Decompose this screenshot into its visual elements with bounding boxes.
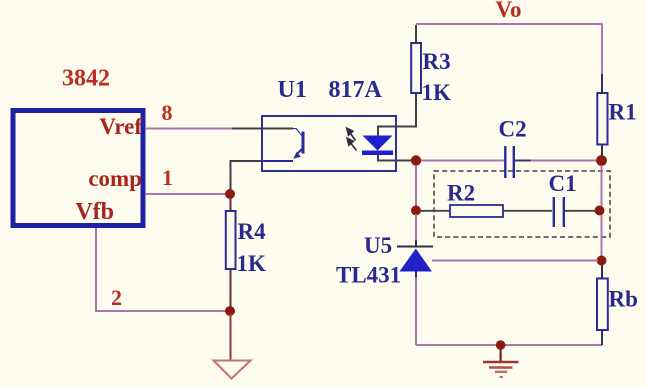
svg-text:817A: 817A xyxy=(329,77,383,103)
svg-text:Vo: Vo xyxy=(496,0,522,22)
svg-text:C2: C2 xyxy=(499,117,527,142)
optocoupler U1 box xyxy=(262,116,396,171)
wire C2 right to R1 junction (purple part) xyxy=(531,160,598,162)
node R4 bottom junction xyxy=(225,306,235,316)
light emission arrows xyxy=(347,128,357,150)
wire U5 cathode lead (dark) xyxy=(415,240,417,247)
wire Vfb pin 2 xyxy=(96,228,227,311)
IC 3842 box xyxy=(13,111,143,226)
resistor R2 xyxy=(421,210,450,212)
dashed compensation box xyxy=(434,171,610,237)
resistor R3 xyxy=(415,25,417,43)
TL431 U5 cathode bar xyxy=(397,246,433,248)
node ground junction xyxy=(496,340,506,350)
wire U5 anode down xyxy=(415,272,417,279)
capacitor C2 xyxy=(504,146,506,178)
wire comp pin 1 xyxy=(146,193,228,195)
wire C2 to R1 bottom junction xyxy=(515,160,532,162)
bottom rail xyxy=(416,344,602,346)
node Rb top junction xyxy=(597,256,607,266)
svg-text:1: 1 xyxy=(162,165,173,190)
wire R2 junction down to U5 cathode xyxy=(415,214,417,241)
wire Vref pin 8 (purple part) xyxy=(146,128,233,130)
node R1 bottom junction xyxy=(596,155,607,166)
resistor R1 xyxy=(601,74,603,93)
svg-text:R3: R3 xyxy=(423,49,451,74)
capacitor C1 xyxy=(553,197,555,227)
svg-text:1K: 1K xyxy=(422,80,452,105)
node C1 right junction xyxy=(595,206,605,216)
svg-text:TL431: TL431 xyxy=(336,263,401,288)
svg-text:U1: U1 xyxy=(278,77,307,103)
svg-text:comp: comp xyxy=(88,166,142,191)
svg-text:Vfb: Vfb xyxy=(75,199,114,225)
svg-text:1K: 1K xyxy=(237,251,267,276)
resistor R4 xyxy=(230,197,232,211)
node LED/C2 junction xyxy=(411,155,421,165)
svg-text:8: 8 xyxy=(162,100,173,125)
svg-text:2: 2 xyxy=(111,285,122,310)
LED triangle xyxy=(363,136,393,151)
svg-text:Rb: Rb xyxy=(609,287,638,312)
svg-text:R1: R1 xyxy=(609,100,637,125)
ground (earth, right side) xyxy=(500,348,502,361)
node R2 left junction xyxy=(411,206,421,216)
wire R4 junction to ground xyxy=(230,314,232,360)
wire U5 ref to Rb top xyxy=(432,260,598,262)
wire U5 anode to bottom rail xyxy=(415,277,417,345)
svg-text:C1: C1 xyxy=(549,171,577,196)
resistor Rb xyxy=(601,264,603,279)
left rail junction to U5 xyxy=(415,165,417,207)
wire U1 emitter to comp junction xyxy=(231,161,294,192)
svg-text:3842: 3842 xyxy=(62,66,110,92)
node comp junction xyxy=(225,189,235,199)
wire C1 to right rail xyxy=(565,210,597,212)
LED (inside U1) anode lead from R3 xyxy=(378,93,416,136)
ground (open triangle, comp side) xyxy=(214,361,251,379)
wire R2 to C1 xyxy=(503,210,552,212)
svg-text:U5: U5 xyxy=(364,233,392,258)
phototransistor (inside U1) xyxy=(293,129,304,155)
wire Vref pin 8 (dark part into U1) xyxy=(232,128,293,130)
LED cathode bar xyxy=(362,151,393,156)
TL431 U5 triangle xyxy=(400,249,433,272)
svg-text:R2: R2 xyxy=(447,181,475,206)
LED cathode lead to junction xyxy=(378,155,413,161)
svg-text:Vref: Vref xyxy=(99,114,142,139)
wire junction to C2 xyxy=(421,160,504,162)
wire Vo top rail xyxy=(416,24,602,75)
right rail segments xyxy=(601,165,603,206)
svg-text:R4: R4 xyxy=(238,219,267,244)
